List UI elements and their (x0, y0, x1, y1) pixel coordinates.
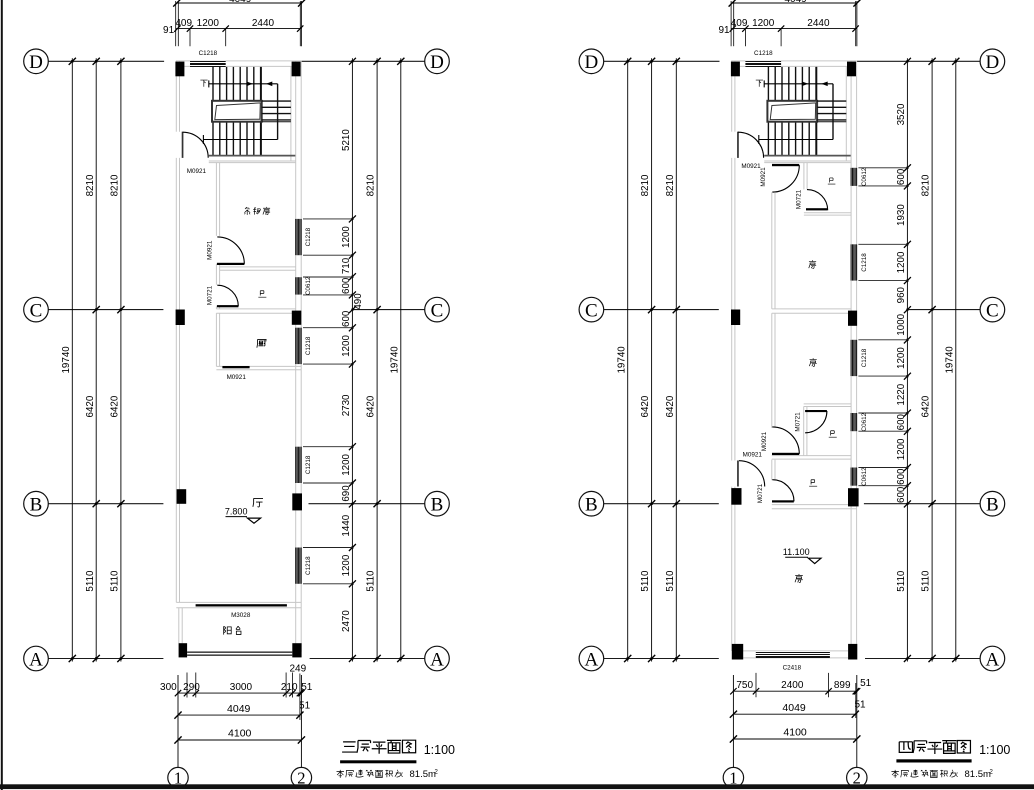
bath2 left wall (803, 407, 805, 456)
svg-text:4100: 4100 (783, 727, 807, 739)
stair side boundary (260, 67, 262, 155)
svg-text:1200: 1200 (752, 18, 775, 29)
stair hall inner wall line R (845, 66, 847, 161)
stair direction label (down) (200, 80, 207, 87)
room divider wall (220, 266, 296, 268)
svg-text:D: D (585, 52, 599, 73)
svg-text:11.100: 11.100 (783, 547, 810, 557)
svg-text:600: 600 (896, 468, 907, 485)
svg-text:1:100: 1:100 (424, 743, 455, 757)
svg-text:4049: 4049 (227, 703, 251, 715)
door M0721 bath1 (806, 190, 828, 211)
grid bubble D right (980, 49, 1005, 74)
column R2 (847, 62, 856, 77)
right dimension line 3 (955, 58, 957, 661)
exterior wall top (176, 60, 301, 62)
svg-text:210: 210 (281, 682, 298, 693)
grid bubble C left (24, 297, 49, 322)
svg-text:C2418: C2418 (783, 665, 802, 672)
stair up-arrow line (764, 80, 833, 87)
exterior wall left R lower (731, 487, 733, 651)
top dim row 409/1200/2440 (731, 28, 857, 30)
svg-text:51: 51 (860, 678, 872, 689)
bath2 top wall (804, 403, 851, 405)
svg-text:8210: 8210 (640, 174, 651, 196)
svg-text:8210: 8210 (921, 174, 932, 196)
grid line D left segment (604, 60, 720, 62)
svg-text:2730: 2730 (341, 394, 352, 416)
exterior wall left R upper (731, 61, 733, 132)
grid line A left segment (48, 658, 163, 660)
stair bottom edge (209, 155, 295, 157)
stair treads upper run (768, 67, 816, 101)
grid bubble B left (24, 491, 49, 516)
living room wall bottom (176, 601, 301, 603)
column 1 (175, 62, 184, 77)
column 5 (177, 489, 187, 504)
right dim ticks outer (374, 58, 405, 662)
grid line D left segment (48, 60, 164, 62)
svg-text:M0721: M0721 (206, 285, 213, 305)
svg-text:19740: 19740 (617, 346, 628, 374)
svg-text:91: 91 (163, 25, 175, 36)
svg-text:6420: 6420 (85, 395, 96, 417)
title underline R (896, 759, 971, 762)
svg-text:6420: 6420 (110, 395, 121, 417)
svg-text:A: A (430, 649, 444, 670)
svg-text:C1218: C1218 (861, 253, 868, 272)
stair winder treads (262, 101, 291, 122)
grid bubble C left (579, 297, 604, 322)
svg-text:M3028: M3028 (231, 612, 251, 619)
svg-text:M0721: M0721 (796, 189, 803, 209)
bottom grid extension 1 (177, 675, 179, 767)
svg-text:B: B (585, 495, 598, 516)
room label big room R (795, 574, 803, 582)
svg-text:5110: 5110 (640, 570, 651, 592)
column 4 (292, 311, 302, 325)
bottom grid extension 1 (732, 675, 734, 767)
svg-text:C1218: C1218 (199, 50, 218, 57)
grid bubble A left (579, 646, 604, 671)
svg-text:600: 600 (896, 486, 907, 503)
grid line B left segment (604, 503, 719, 505)
svg-text:1200: 1200 (896, 251, 907, 273)
svg-text:1200: 1200 (896, 438, 907, 460)
title third floor plan (342, 740, 416, 754)
window dim extension lines (858, 168, 907, 486)
svg-text:1200: 1200 (197, 18, 220, 29)
right dimension line 2 (931, 58, 933, 661)
balcony wall left (178, 608, 180, 644)
left dimension line 8210/6420/5110 line 2 (675, 58, 677, 661)
bath1 wall left (803, 163, 805, 190)
window C0612 right wall R (850, 468, 857, 486)
left dim ticks (69, 58, 125, 662)
column R1 (731, 62, 740, 77)
door M0921 kitchen (222, 366, 249, 368)
svg-text:6420: 6420 (640, 395, 651, 417)
svg-text::: : (956, 769, 958, 779)
svg-text:19740: 19740 (389, 346, 400, 374)
grid bubble A left (24, 646, 49, 671)
window C1218 top (190, 61, 226, 67)
svg-text:19740: 19740 (61, 346, 72, 374)
svg-text:C: C (431, 300, 444, 321)
grid line A right segment (865, 658, 980, 660)
hall wall room2 left (771, 313, 773, 428)
room label bath2 R (829, 431, 837, 437)
window C1218 right wall (295, 447, 302, 483)
svg-text:8210: 8210 (665, 174, 676, 196)
column R8 (848, 644, 857, 660)
svg-text:M0921: M0921 (227, 374, 247, 381)
svg-text:C0612: C0612 (861, 467, 868, 486)
svg-text:1:100: 1:100 (979, 743, 1010, 757)
level marker 7.800 (225, 507, 261, 524)
right dim ticks inner segments (349, 58, 356, 662)
bottom wall R (738, 650, 848, 652)
stair winder treads (817, 101, 846, 122)
bath3 left wall (771, 460, 773, 481)
svg-text::: : (401, 769, 403, 779)
svg-text:D: D (986, 52, 1000, 73)
svg-text:1930: 1930 (896, 204, 907, 226)
stair hall bottom wall R (764, 160, 851, 162)
bottom dim row 4100 (733, 738, 856, 740)
svg-text:M0921: M0921 (741, 163, 761, 170)
stair treads lower run (768, 122, 816, 156)
column R5 (731, 488, 741, 505)
area note fourth floor (891, 769, 993, 780)
window dim extension lines (303, 219, 352, 584)
right dimension line 2 (376, 58, 378, 661)
grid bubble C right (980, 297, 1005, 322)
grid bubble B right (980, 491, 1005, 516)
bottom extension short lines (187, 673, 300, 721)
svg-text:C: C (585, 300, 598, 321)
grid line D right segment (302, 60, 425, 62)
exterior wall top R (731, 60, 856, 62)
svg-text:2400: 2400 (781, 680, 804, 691)
svg-text:710: 710 (341, 257, 352, 274)
svg-text:1200: 1200 (896, 347, 907, 369)
room label room2 R (809, 358, 816, 366)
grid line C right segment (352, 309, 424, 311)
svg-text:M0721: M0721 (794, 412, 801, 432)
exterior wall left R mid (731, 158, 733, 461)
svg-text:5110: 5110 (896, 570, 907, 592)
exterior wall left upper (175, 61, 177, 132)
level marker 11.100 (783, 547, 821, 563)
wall on grid B R (772, 504, 857, 506)
svg-text:C1218: C1218 (305, 336, 312, 355)
column bubble 2 (291, 767, 311, 787)
svg-text:5110: 5110 (665, 570, 676, 592)
left dimension line 8210/6420/5110 line (651, 58, 653, 661)
top dim row 409/1200/2440 (176, 28, 302, 30)
room label bath1 R (828, 178, 836, 184)
column bubble 1 (168, 767, 188, 787)
svg-text:B: B (431, 495, 444, 516)
stair side boundary (816, 67, 818, 155)
stair treads lower run (213, 122, 261, 156)
window C1218 right wall R (850, 244, 857, 280)
room label bath (258, 291, 266, 297)
wall on grid C (216, 308, 295, 310)
svg-text:A: A (585, 649, 599, 670)
svg-text:8210: 8210 (366, 174, 377, 196)
svg-text:M0921: M0921 (187, 168, 207, 175)
svg-text:750: 750 (736, 680, 753, 691)
svg-text:M0721: M0721 (757, 483, 764, 503)
grid bubble A right (980, 646, 1005, 671)
left dimension line 8210/6420/5110 line (95, 58, 97, 661)
grid line C left segment (604, 309, 719, 311)
column R7 (732, 644, 743, 660)
svg-text:600: 600 (341, 277, 352, 294)
door M0721 bath3 (772, 480, 794, 503)
stair landing break box (212, 101, 262, 122)
room label bath3 R (809, 480, 817, 486)
top dim extension lines (176, 1, 302, 46)
grid line B left segment (48, 503, 163, 505)
window C1218 top R (745, 61, 781, 67)
svg-text:4100: 4100 (228, 728, 252, 740)
svg-text:M0921: M0921 (743, 452, 763, 459)
wall on grid C R (772, 308, 851, 310)
door M0921 room2 (772, 427, 799, 455)
top dim extension lines (731, 1, 857, 46)
svg-text:600: 600 (341, 310, 352, 327)
svg-text:C0612: C0612 (861, 167, 868, 186)
stair landing break box (767, 101, 817, 122)
title underline (340, 760, 416, 763)
bottom dim row segments (733, 690, 858, 692)
door M0921 stair hall (182, 132, 209, 158)
door M0721 bath2 (805, 410, 827, 433)
svg-text:1440: 1440 (341, 514, 352, 536)
column R6 (848, 488, 859, 506)
svg-text:C0612: C0612 (305, 276, 312, 295)
grid bubble B left (579, 491, 604, 516)
column 2 (292, 62, 301, 77)
svg-text:D: D (430, 52, 444, 73)
exterior wall left lower (175, 158, 177, 603)
right dimension line 3 (400, 58, 402, 661)
right dim ticks outer (929, 58, 960, 662)
svg-text:690: 690 (341, 485, 352, 502)
svg-text:5210: 5210 (341, 129, 352, 151)
window C1218 right wall R (850, 340, 857, 376)
svg-text:4049: 4049 (229, 0, 252, 5)
room2 and bath2 bottom wall (772, 455, 851, 457)
window C1218 right wall (295, 219, 302, 255)
svg-text:8210: 8210 (85, 174, 96, 196)
stair well line (277, 84, 279, 140)
column bubble 2 (847, 767, 867, 787)
svg-text:8210: 8210 (110, 174, 121, 196)
grid bubble D left (24, 49, 49, 74)
svg-text:2440: 2440 (252, 18, 275, 29)
svg-text:1200: 1200 (341, 335, 352, 357)
corridor wall segment 2 (215, 264, 217, 285)
svg-text:1200: 1200 (341, 453, 352, 475)
stair bottom edge (764, 155, 851, 157)
svg-text:C1218: C1218 (305, 455, 312, 474)
svg-text:960: 960 (896, 286, 907, 303)
stair down-arrow line (203, 135, 277, 144)
bottom dim row 4049 (178, 714, 300, 716)
svg-text:1000: 1000 (896, 313, 907, 335)
window C1218 right wall (295, 548, 302, 584)
grid line A right segment (310, 658, 425, 660)
door M0921 to front room (772, 164, 799, 192)
grid line C right segment (907, 309, 980, 311)
svg-text:19740: 19740 (944, 346, 955, 374)
door M3028 balcony (196, 604, 287, 606)
svg-text:600: 600 (896, 168, 907, 185)
svg-text:290: 290 (183, 682, 200, 693)
column 8 (292, 643, 301, 657)
top dim row (cut) (177, 2, 302, 4)
column R4 (848, 311, 857, 326)
grid bubble D left (579, 49, 604, 74)
svg-text:5110: 5110 (85, 570, 96, 592)
column 6 (292, 493, 302, 510)
top dim row (cut) (732, 2, 857, 4)
svg-text:300: 300 (160, 682, 177, 693)
grid line A left segment (604, 658, 719, 660)
room label hall (253, 498, 263, 507)
sheet border bottom (0, 784, 1034, 789)
corridor wall segment 3 (215, 307, 217, 309)
svg-text:B: B (30, 495, 43, 516)
stair hall bottom wall (209, 160, 296, 162)
svg-text:2470: 2470 (341, 610, 352, 632)
grid bubble C right (425, 297, 450, 322)
door M0921 storage room (217, 237, 245, 265)
svg-text:4049: 4049 (782, 702, 806, 714)
right dimension line 1 (906, 58, 908, 661)
svg-text:C1218: C1218 (861, 348, 868, 367)
sheet border left (1, 0, 3, 790)
svg-text:7.800: 7.800 (225, 507, 248, 517)
svg-text:6420: 6420 (921, 395, 932, 417)
bottom grid extension 2 (300, 675, 302, 767)
stair direction label (down) (756, 80, 763, 87)
left dim ticks (624, 58, 680, 662)
door M0921 stair hall R (737, 132, 764, 158)
bottom grid extension 2 (856, 675, 858, 767)
window C0612 right wall (295, 277, 302, 294)
svg-text:5110: 5110 (921, 570, 932, 592)
svg-text:D: D (29, 52, 43, 73)
svg-text:C: C (30, 300, 43, 321)
grid bubble D right (425, 49, 450, 74)
svg-text:2440: 2440 (807, 18, 830, 29)
room label balcony (224, 626, 241, 634)
svg-text:600: 600 (896, 413, 907, 430)
bottom extension short lines (756, 673, 856, 718)
room label kitchen (257, 339, 267, 347)
window C1218 right wall (295, 328, 302, 364)
door M0721 bath (217, 285, 239, 307)
svg-text:51: 51 (299, 701, 311, 712)
svg-text:6420: 6420 (366, 395, 377, 417)
balcony railing (187, 651, 292, 653)
svg-text:51: 51 (301, 682, 313, 693)
kitchen wall bottom (216, 365, 301, 367)
kitchen wall left (215, 313, 217, 366)
svg-text:A: A (986, 649, 1000, 670)
room label storage (244, 207, 270, 215)
window C0612 right wall R (850, 168, 857, 186)
corridor wall segment 1 (215, 163, 217, 236)
svg-text:M0921: M0921 (760, 167, 767, 187)
svg-text:C1218: C1218 (305, 227, 312, 246)
area note third floor (337, 769, 439, 780)
bottom dim row 4049 (733, 713, 855, 715)
stair up-arrow line (209, 80, 278, 87)
svg-text:C: C (986, 300, 999, 321)
stair treads upper run (213, 67, 261, 101)
room label room1 R (809, 260, 816, 268)
left dimension line 8210/6420/5110 line 2 (120, 58, 122, 661)
svg-text:M0921: M0921 (761, 431, 768, 451)
exterior wall right R (850, 61, 852, 651)
svg-text:C0612: C0612 (861, 412, 868, 431)
svg-text:5110: 5110 (366, 570, 377, 592)
svg-text:899: 899 (834, 680, 851, 691)
title fourth floor plan (899, 740, 970, 754)
column 7 (179, 643, 188, 657)
grid bubble A right (425, 646, 450, 671)
grid line B right segment (309, 503, 425, 505)
svg-text:C1218: C1218 (754, 50, 773, 57)
right dim ticks inner segments (904, 58, 911, 662)
exterior wall right (295, 61, 297, 652)
window C0612 right wall R (850, 413, 857, 431)
column R3 (731, 310, 740, 326)
svg-text:490: 490 (353, 293, 364, 310)
grid line C left segment (48, 309, 163, 311)
svg-text:A: A (29, 649, 43, 670)
svg-text:3000: 3000 (230, 682, 253, 693)
svg-text:91: 91 (718, 25, 730, 36)
grid bubble B right (425, 491, 450, 516)
svg-text:6420: 6420 (665, 395, 676, 417)
svg-text:4049: 4049 (784, 0, 807, 5)
right dimension line 1 (351, 58, 353, 661)
left dimension line 19740 line (71, 58, 73, 661)
bath1 wall bottom (804, 212, 851, 214)
stair down-arrow line (759, 135, 833, 144)
svg-text:81.5m: 81.5m (965, 769, 991, 780)
bottom dim row 4100 (178, 739, 301, 741)
column 3 (176, 310, 185, 326)
hall wall room1 left (771, 192, 773, 309)
svg-text:5110: 5110 (110, 570, 121, 592)
stair well line (832, 84, 834, 140)
column bubble 1 (723, 767, 743, 787)
door M0921 left wall near B (737, 461, 765, 487)
window C2418 (756, 651, 830, 658)
svg-text:1220: 1220 (896, 383, 907, 405)
grid line B right segment (864, 503, 980, 505)
svg-text:1200: 1200 (341, 554, 352, 576)
svg-text:B: B (986, 495, 999, 516)
